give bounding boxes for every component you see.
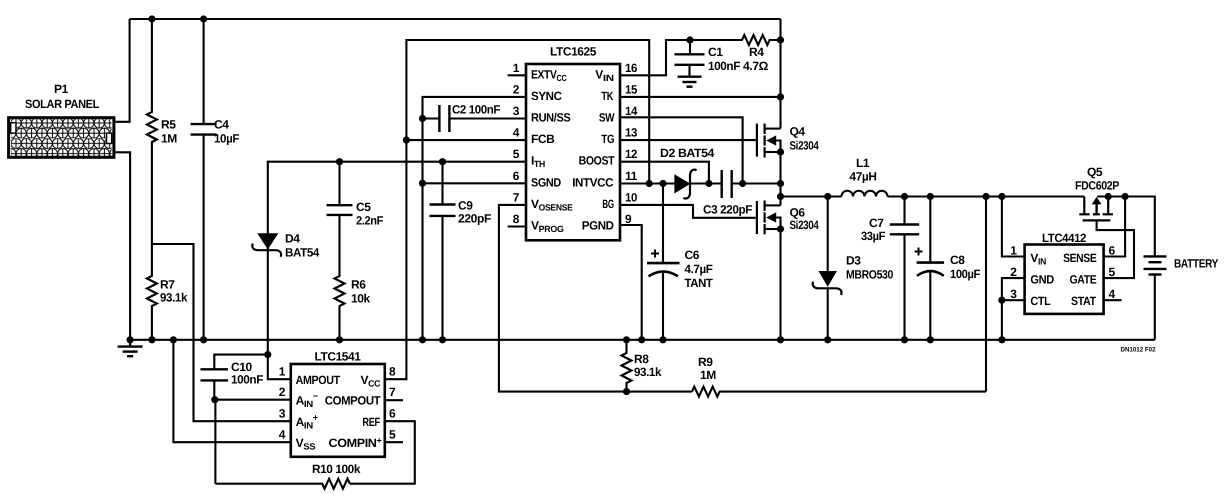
IC U1 LTC1625 labels [513,45,638,235]
transistor Q5 FDC602P [1079,197,1113,221]
inductor L1 [842,191,888,197]
resistor R10 [215,479,349,489]
IC U2 LTC1541 labels [279,350,396,452]
stub: VPROG pin8 [508,225,526,227]
svg-text:4.7µF: 4.7µF [685,262,713,276]
wire: D2 cathode to C3 [691,182,721,184]
svg-text:3: 3 [1010,287,1017,301]
svg-text:8: 8 [389,365,396,379]
capacitor C2 [439,105,449,132]
resistor R9 [692,387,986,397]
svg-text:GND: GND [1030,272,1054,286]
wire: Q6 source to ground rail [779,229,781,340]
stub: COMPOUT pin7 [385,399,403,401]
svg-text:13: 13 [625,126,638,140]
transistor Q4 Si2304 [757,124,765,158]
svg-text:C8: C8 [950,253,965,267]
svg-text:C7: C7 [869,216,884,230]
resistor R4 [690,35,781,45]
svg-text:47µH: 47µH [850,170,877,184]
svg-text:2: 2 [513,82,520,96]
ground symbol main [118,340,143,356]
capacitor C6 4.7uF TANT [662,184,664,264]
svg-text:7: 7 [513,190,520,204]
wire: SGND pin6 to left vertical [423,182,527,184]
svg-text:SGND: SGND [531,175,561,189]
svg-text:2: 2 [1010,265,1017,279]
svg-text:D4: D4 [285,232,300,246]
svg-text:4: 4 [513,126,520,140]
plus sign C6 [651,250,659,258]
svg-text:6: 6 [1109,244,1116,258]
svg-text:7: 7 [389,385,396,399]
svg-text:3: 3 [513,104,520,118]
svg-text:C4: C4 [214,118,229,132]
svg-text:REF: REF [362,415,379,429]
svg-text:Q5: Q5 [1087,165,1103,179]
svg-text:BOOST: BOOST [579,154,616,168]
wire: LTC4412 VIN pin1 to output [1002,197,1025,257]
svg-text:PGND: PGND [582,219,614,233]
wire: PGND pin9 down to ground rail [620,225,642,340]
svg-text:FCB: FCB [531,132,555,146]
svg-text:RUN/SS: RUN/SS [531,111,571,125]
svg-text:SYNC: SYNC [531,89,562,103]
wire: TK pin15 to Q4 drain rail [620,96,781,98]
wire: top rail [130,18,781,20]
wire: VIN pin16 to C1/R4 [620,40,690,75]
svg-text:R10 100k: R10 100k [312,462,361,476]
svg-text:93.1k: 93.1k [634,365,662,379]
svg-text:LTC1625: LTC1625 [550,45,597,59]
capacitor C5 [338,162,340,206]
svg-text:C2 100nF: C2 100nF [452,103,500,117]
svg-text:TK: TK [601,89,613,103]
svg-text:Si2304: Si2304 [790,139,820,153]
svg-text:R9: R9 [698,355,713,369]
svg-text:FDC602P: FDC602P [1075,179,1119,193]
wire: solar panel - lead down to ground rail [115,152,130,339]
capacitor C7 [903,197,905,225]
svg-text:3: 3 [279,407,286,421]
wire: LTC4412 GND pin2 to ground rail [1002,278,1025,340]
stub: COMPIN+ pin5 [385,441,403,443]
svg-text:100nF: 100nF [708,59,740,73]
wire: SW pin14 down to switch line [620,117,743,183]
svg-text:LTC4412: LTC4412 [1042,231,1087,245]
resistor R5 [147,19,157,244]
svg-text:R7: R7 [160,278,175,292]
svg-text:R5: R5 [161,118,176,132]
svg-text:LTC1541: LTC1541 [315,350,362,364]
svg-text:INTVCC: INTVCC [572,175,614,189]
IC U2 LTC1541 box [291,364,385,457]
svg-text:CTL: CTL [1030,294,1050,308]
svg-text:L1: L1 [856,156,870,170]
wire: R10 left up to AIN- node [214,400,216,484]
resistor R8 [622,340,632,392]
wire: R5/R7 junction to AIN+ pin3 of LTC1541 [152,244,291,421]
capacitor C9 [441,162,443,205]
diode D2 BAT54 [675,176,688,192]
wire: ground rail [130,339,1155,341]
wire: SENSE pin6 to output [1104,197,1126,257]
svg-text:5: 5 [389,428,396,442]
svg-text:TG: TG [601,132,614,146]
wire: switch node vertical [779,152,781,205]
capacitor C10 [214,355,267,370]
svg-text:9: 9 [625,212,632,226]
svg-text:TANT: TANT [685,276,714,290]
capacitor C1 [689,40,691,54]
svg-text:C3 220pF: C3 220pF [703,203,752,217]
svg-text:1: 1 [1010,244,1017,258]
IC U3 LTC4412 labels [1010,231,1115,308]
wire: REF pin6 to R10 [350,421,415,484]
svg-text:4: 4 [1109,287,1116,301]
svg-text:4: 4 [279,428,286,442]
svg-text:2.2nF: 2.2nF [356,214,383,228]
wire: CTL pin3 to GND vertical [1002,299,1025,301]
resistor R6 [335,215,345,340]
svg-text:R4: R4 [749,45,764,59]
svg-text:10µF: 10µF [214,132,239,146]
ground symbol at C1 [678,77,702,87]
wire: BG pin10 to Q6 gate [620,205,756,218]
svg-text:16: 16 [625,61,638,75]
svg-text:15: 15 [625,82,638,96]
svg-text:BAT54: BAT54 [285,246,320,260]
svg-text:220pF: 220pF [458,212,491,226]
svg-text:33µF: 33µF [861,229,885,243]
wire: Q5 gate to LTC4412 GATE pin5 [1097,220,1134,278]
svg-text:10k: 10k [351,292,371,306]
wire: VOSENSE pin7 loop down to feedback line [499,205,692,392]
svg-text:100nF: 100nF [231,373,263,387]
svg-text:5: 5 [513,147,520,161]
svg-text:100µF: 100µF [950,267,980,281]
svg-text:D2 BAT54: D2 BAT54 [660,146,715,160]
wire: VSS pin4 to ground rail [173,340,290,442]
svg-text:Q4: Q4 [790,125,806,139]
svg-text:C9: C9 [458,199,473,213]
svg-text:SOLAR PANEL: SOLAR PANEL [25,97,99,111]
svg-text:STAT: STAT [1071,294,1097,308]
wire: ITH line from LTC1625 pin5 to D4 branch [268,162,526,235]
svg-text:BATTERY: BATTERY [1174,257,1218,271]
IC U3 LTC4412 box [1025,245,1104,314]
svg-text:1: 1 [279,365,286,379]
svg-text:1M: 1M [700,368,716,382]
wire: Q5 drain to battery [1097,197,1155,257]
svg-text:P1: P1 [54,82,69,96]
svg-text:D3: D3 [846,254,861,268]
resistor R7 [147,244,157,340]
svg-text:GATE: GATE [1070,272,1097,286]
wire: LTC1541 VCC pin8 up to VIN loop and INTVCC [385,40,649,379]
IC U1 LTC1625 box [526,64,620,240]
diode D4 BAT54 [259,234,276,247]
wire: AIN- pin2 [215,399,291,401]
svg-text:6: 6 [389,407,396,421]
svg-text:AMPOUT: AMPOUT [296,373,341,387]
wire: TG pin13 to Q4 gate [620,139,756,141]
wire: switch node to L1 [781,195,842,197]
svg-text:1: 1 [513,61,520,75]
wire: FCB pin4 to VCC vertical [406,139,526,141]
svg-text:Si2304: Si2304 [790,218,820,232]
wire: solar panel + lead up to top rail [115,19,129,122]
svg-text:C1: C1 [708,45,723,59]
wire: feedback line up to output [985,197,987,392]
svg-text:R6: R6 [351,278,366,292]
svg-text:SENSE: SENSE [1063,251,1097,265]
wire: RUN/SS pin3 to C2 [449,117,526,119]
wire: D4 cathode down to AMPOUT pin1 of LTC1541 [268,248,291,380]
capacitor C3 [722,170,732,198]
svg-text:4.7Ω: 4.7Ω [743,59,769,73]
svg-text:1M: 1M [161,132,177,146]
transistor Q6 Si2304 [757,200,765,234]
svg-text:5: 5 [1109,265,1116,279]
battery symbol [1144,256,1167,274]
capacitor C8 100uF [929,197,931,263]
stub: STAT pin4 [1104,299,1122,301]
svg-text:14: 14 [625,104,638,118]
plus sign C8 [915,248,923,256]
svg-text:SW: SW [599,111,615,125]
solar panel P1 [9,118,114,158]
svg-text:BG: BG [602,197,613,211]
stub: EXTVCC pin1 [508,74,526,76]
svg-text:8: 8 [513,212,520,226]
svg-text:10: 10 [625,190,638,204]
svg-text:DN1012 F02: DN1012 F02 [1121,347,1156,354]
capacitor C4 [203,19,205,124]
wire: L1 to output line [888,195,1085,197]
svg-text:12: 12 [625,147,638,161]
svg-text:2: 2 [279,385,286,399]
svg-text:R8: R8 [634,352,649,366]
diode D3 MBRO530 [827,197,829,273]
svg-text:6: 6 [513,169,520,183]
svg-text:93.1k: 93.1k [160,291,188,305]
wire: SYNC pin2 loop down left rail [423,97,527,340]
svg-text:C5: C5 [356,200,371,214]
wire: BOOST pin12 to D2 cathode node [620,162,709,184]
svg-text:11: 11 [625,169,638,183]
wire: INTVCC pin11 line to D2 anode [620,182,675,184]
wire: Q4 drain rail from top [779,19,781,129]
svg-text:C6: C6 [685,248,700,262]
svg-text:COMPIN+: COMPIN+ [329,436,382,451]
svg-text:MBRO530: MBRO530 [846,268,894,282]
svg-text:COMPOUT: COMPOUT [325,394,381,408]
